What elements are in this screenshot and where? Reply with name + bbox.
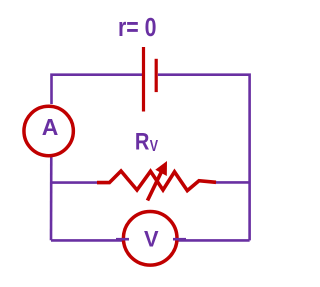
wire left: ammeter bottom down to bottom-left corner xyxy=(50,150,53,240)
svg-text:A: A xyxy=(42,114,59,140)
resistor RV (variable, zigzag) xyxy=(97,171,216,191)
wire bottom xyxy=(51,239,250,242)
wire top-left: top-left corner to battery xyxy=(52,75,143,104)
svg-text:R: R xyxy=(135,129,150,156)
wiper arrow of RV xyxy=(148,161,168,201)
label RV xyxy=(135,129,159,156)
wire middle-left: junction to resistor xyxy=(51,181,98,184)
battery cell V1 xyxy=(144,47,157,112)
ammeter A xyxy=(24,106,73,155)
wire middle-right: resistor to right rail xyxy=(214,181,250,184)
voltmeter V xyxy=(123,212,177,266)
wire top-right: battery to top-right corner down right side xyxy=(158,75,250,241)
wire stub into voltmeter right xyxy=(173,238,186,241)
wire stub into voltmeter left xyxy=(116,238,129,241)
svg-text:r= 0: r= 0 xyxy=(118,14,157,42)
svg-text:V: V xyxy=(144,226,159,251)
svg-text:V: V xyxy=(150,138,159,155)
